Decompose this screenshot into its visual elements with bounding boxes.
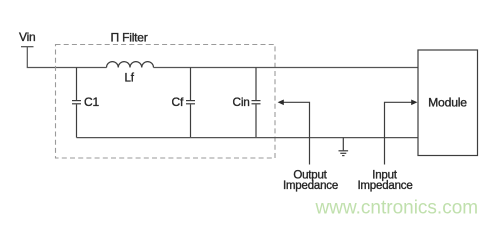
svg-text:www.cntronics.com: www.cntronics.com	[315, 198, 479, 219]
svg-text:Cin: Cin	[233, 95, 250, 109]
ground	[339, 138, 349, 156]
svg-text:Module: Module	[428, 96, 467, 110]
capacitor C1	[72, 68, 81, 138]
svg-text:C1: C1	[84, 95, 99, 109]
arrow output impedance	[281, 102, 310, 164]
svg-text:Impedance: Impedance	[357, 180, 412, 192]
module box	[418, 50, 478, 156]
svg-text:Impedance: Impedance	[283, 180, 338, 192]
inductor Lf	[107, 62, 154, 68]
svg-text:Lf: Lf	[125, 73, 135, 85]
wire Vin down and to filter	[27, 47, 106, 68]
dashed box Pi filter boundary	[56, 45, 276, 159]
capacitor Cin	[252, 68, 261, 138]
svg-text:Vin: Vin	[19, 30, 36, 44]
arrow input impedance	[385, 102, 415, 164]
terminal Vin	[21, 46, 34, 48]
wire top to module	[154, 67, 419, 69]
wire bottom rail	[77, 137, 419, 139]
svg-text:Π Filter: Π Filter	[111, 31, 148, 45]
svg-text:Cf: Cf	[172, 95, 184, 109]
capacitor Cf	[186, 68, 195, 138]
